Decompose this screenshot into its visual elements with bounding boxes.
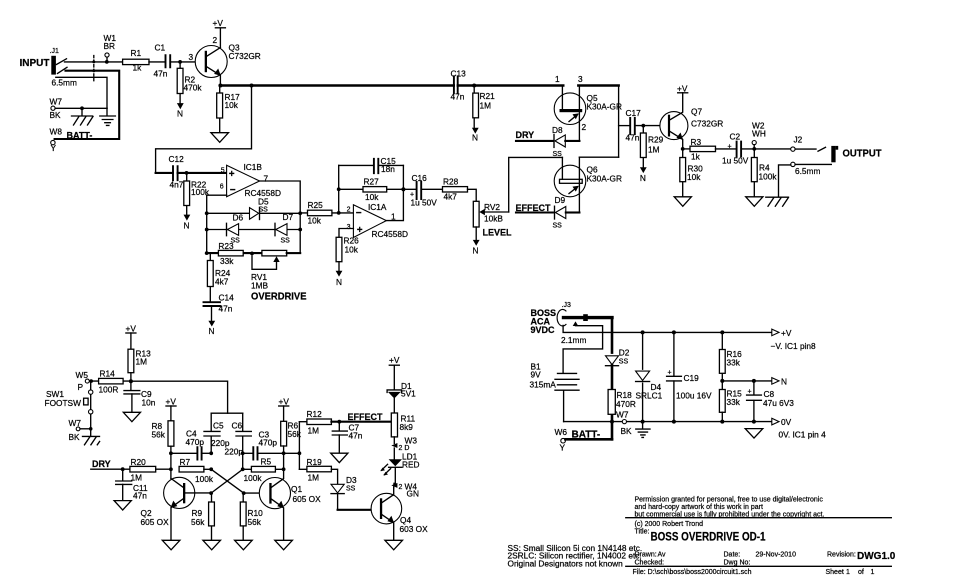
node R7 right [209, 467, 213, 471]
svg-text:W5: W5 [76, 370, 89, 380]
transistor Q4 603 OX [371, 488, 428, 541]
capacitor C1 47n [154, 43, 171, 79]
resistor R8 56k [152, 421, 174, 470]
svg-text:D6: D6 [233, 213, 244, 223]
node D6 left [205, 228, 209, 232]
transistor Q3 C732GR [189, 28, 261, 85]
svg-text:+V: +V [166, 397, 177, 407]
resistor R18 470R [608, 390, 636, 415]
node D4 bottom [641, 420, 645, 424]
transistor Q2 605 OX [141, 469, 195, 540]
svg-text:N: N [640, 173, 646, 183]
+V arrow [771, 328, 817, 351]
svg-text:9VDC: 9VDC [531, 325, 556, 335]
svg-text:R5: R5 [261, 457, 272, 467]
svg-text:GN: GN [407, 489, 419, 499]
svg-text:33k: 33k [220, 256, 234, 266]
svg-text:C2: C2 [730, 132, 741, 142]
svg-text:OUTPUT: OUTPUT [843, 148, 882, 159]
svg-text:Checked:: Checked: [635, 559, 665, 566]
ground below 0V rail [745, 429, 763, 439]
svg-text:220p: 220p [225, 447, 244, 457]
svg-text:1: 1 [846, 569, 850, 576]
svg-text:C19: C19 [684, 373, 700, 383]
svg-text:of: of [858, 569, 864, 576]
node output R4 [752, 147, 756, 151]
svg-text:C14: C14 [219, 293, 235, 303]
node R8 C4 [169, 451, 173, 455]
node Q1 base [242, 491, 246, 495]
resistor R13 1M [128, 349, 151, 382]
node Q3 emitter bus [218, 84, 222, 88]
jack J2 output [791, 135, 838, 177]
diode D2 SS [604, 348, 629, 366]
svg-text:1M: 1M [480, 101, 492, 111]
svg-text:10k: 10k [687, 172, 701, 182]
0V arrow [772, 417, 826, 440]
svg-text:100k: 100k [759, 172, 778, 182]
ground below Q1 [275, 540, 293, 550]
svg-text:1: 1 [555, 74, 560, 84]
svg-text:47n: 47n [451, 92, 465, 102]
wire Q1 base [244, 492, 270, 494]
wire sleeve run [56, 77, 107, 108]
svg-text:2.1mm: 2.1mm [561, 335, 586, 345]
svg-text:−V. IC1 pin8: −V. IC1 pin8 [771, 341, 817, 351]
capacitor C3 470p [243, 430, 284, 460]
svg-text:Title:: Title: [635, 529, 650, 536]
svg-text:Permission granted for persona: Permission granted for personal, free to… [635, 497, 824, 504]
node C13 R21 [472, 84, 476, 88]
node C8 bottom [752, 420, 756, 424]
svg-text:IC1A: IC1A [368, 202, 387, 212]
wire W7 to earth [55, 107, 107, 109]
N arrow below R22 [184, 215, 191, 231]
svg-text:DWG1.0: DWG1.0 [857, 551, 896, 562]
svg-text:BATT-: BATT- [67, 131, 93, 141]
svg-text:D8: D8 [552, 125, 563, 135]
wire D3 to Q4 base thick [338, 509, 380, 511]
op-amp IC1A [347, 202, 408, 239]
svg-text:R7: R7 [180, 457, 191, 467]
svg-text:W7: W7 [50, 97, 63, 107]
svg-text:BR: BR [104, 41, 116, 51]
svg-text:DRY: DRY [516, 130, 535, 140]
svg-text:SRLC1: SRLC1 [636, 391, 663, 401]
op-amp IC1B [220, 162, 281, 198]
svg-text:OVERDRIVE: OVERDRIVE [251, 291, 307, 302]
svg-text:1k: 1k [691, 152, 701, 162]
svg-text:W7: W7 [616, 410, 629, 420]
+V above D1 [389, 355, 400, 390]
svg-text:SS: SS [259, 206, 269, 213]
svg-text:100u 16V: 100u 16V [676, 391, 712, 401]
battery switch contact path [563, 321, 603, 372]
ground below R17 [211, 133, 229, 143]
svg-text:Revision:: Revision: [827, 552, 856, 559]
svg-text:18n: 18n [381, 164, 395, 174]
svg-text:N: N [472, 133, 478, 143]
resistor R10 56k [240, 493, 263, 540]
svg-text:C13: C13 [451, 69, 467, 79]
svg-text:SS: SS [553, 151, 563, 158]
svg-text:R23: R23 [218, 241, 234, 251]
N arrow below R21 [472, 128, 479, 143]
N arrow below R2 [177, 103, 184, 118]
diode D7 SS [275, 212, 293, 245]
svg-text:R21: R21 [480, 91, 496, 101]
ground below C7 [331, 453, 348, 462]
svg-text:605 OX: 605 OX [293, 494, 322, 504]
capacitor C6 220p [225, 413, 252, 469]
svg-text:29-Nov-2010: 29-Nov-2010 [756, 552, 797, 559]
svg-text:Date:: Date: [724, 552, 741, 559]
resistor R23 33k [207, 241, 262, 266]
DC jack center pin wire thick [564, 314, 613, 321]
svg-text:R3: R3 [691, 137, 702, 147]
wire net to R25 [300, 212, 353, 214]
+V above R13 [126, 324, 137, 350]
svg-text:+V: +V [389, 355, 400, 365]
resistor R6 56k [281, 421, 302, 454]
svg-text:315mA: 315mA [530, 380, 557, 390]
node Q2 collector [169, 467, 173, 471]
svg-text:5V1: 5V1 [401, 389, 416, 399]
wire R28 to RV2 [468, 189, 477, 201]
node C5 C4 [209, 451, 213, 455]
svg-text:+: + [748, 389, 752, 396]
chassis ground input [72, 108, 94, 125]
wire D6 D7 row [207, 229, 301, 231]
chassis ground footswitch [83, 427, 100, 445]
resistor R9 56k [191, 493, 214, 540]
svg-text:W8: W8 [50, 127, 63, 137]
wire output sleeve to chassis [779, 165, 791, 196]
svg-text:R12: R12 [307, 409, 323, 419]
resistor R16 33k [719, 332, 742, 389]
svg-text:47n: 47n [219, 304, 233, 314]
capacitor C2 1u 50V [722, 132, 791, 166]
ground below C11 [114, 501, 131, 510]
resistor R1 1k [123, 48, 149, 73]
JFET Q6 K30A-GR [554, 157, 622, 212]
svg-text:605 OX: 605 OX [141, 517, 170, 527]
title block bottom rule [626, 565, 892, 567]
resistor R22 100k [184, 173, 210, 215]
svg-text:INPUT: INPUT [20, 58, 50, 69]
svg-text:−: − [230, 185, 236, 196]
footswitch SW1 [45, 381, 93, 429]
ground below Q4 [385, 540, 403, 550]
capacitor C7 47n [332, 422, 362, 453]
node C17 R29 [641, 124, 645, 128]
svg-text:BOSS OVERDRIVE OD-1: BOSS OVERDRIVE OD-1 [651, 530, 766, 544]
transistor Q7 C732GR [660, 93, 723, 149]
JFET Q5 K30A-GR [554, 74, 622, 141]
svg-text:1MB: 1MB [251, 280, 269, 290]
capacitor C13 47n [451, 69, 467, 102]
svg-text:LEVEL: LEVEL [483, 228, 513, 238]
svg-text:R19: R19 [307, 457, 323, 467]
svg-text:47n: 47n [626, 133, 640, 143]
node divider mid [720, 379, 724, 383]
svg-text:47n: 47n [349, 431, 363, 441]
svg-text:Sheet: Sheet [826, 569, 844, 576]
svg-text:J2: J2 [794, 135, 803, 145]
diode D9 SS [553, 195, 580, 229]
ground below C9 [123, 412, 140, 421]
svg-text:C5: C5 [213, 421, 224, 431]
svg-text:EFFECT: EFFECT [348, 412, 384, 422]
svg-text:N: N [184, 221, 190, 231]
N arrow below R29 [640, 167, 647, 183]
svg-text:FOOTSW: FOOTSW [45, 398, 82, 408]
wire Q6 drain link [579, 156, 618, 158]
svg-text:N: N [177, 109, 183, 119]
resistor R5 100k [243, 457, 284, 484]
svg-text:10kB: 10kB [484, 214, 503, 224]
svg-text:W3: W3 [405, 436, 418, 446]
svg-text:4n7: 4n7 [170, 180, 184, 190]
svg-text:EFFECT: EFFECT [516, 203, 552, 213]
wire feedback right vertical [386, 165, 403, 220]
capacitor C11 47n [116, 469, 148, 501]
svg-text:R14: R14 [100, 369, 116, 379]
svg-text:+V: +V [126, 324, 137, 334]
N arrow below RV2 [473, 240, 480, 256]
svg-text:N: N [209, 326, 215, 336]
svg-text:RV2: RV2 [484, 202, 500, 212]
connector W4 [391, 482, 419, 499]
connector W8 battery [50, 127, 93, 154]
title block drawn row [635, 551, 896, 562]
capacitor C17 47n [619, 108, 668, 143]
svg-text:1: 1 [871, 569, 875, 576]
node IC1A inverting [337, 211, 341, 215]
svg-text:Drawn:: Drawn: [635, 552, 657, 559]
N arrow power [772, 376, 787, 386]
svg-text:R28: R28 [443, 176, 459, 186]
node R5 left [241, 467, 245, 471]
svg-text:R27: R27 [364, 177, 380, 187]
svg-text:File: D:\sch\boss\boss2000ci: File: D:\sch\boss\boss2000circuit1.sch [633, 569, 752, 576]
node Q1 collector C3 [282, 451, 286, 455]
svg-text:and hard-copy artwork of this: and hard-copy artwork of this work in pa… [635, 504, 763, 511]
node Q2 base [209, 491, 213, 495]
+V above Q3 [213, 18, 226, 28]
resistor R11 8k9 [391, 413, 415, 443]
earth ground input [100, 108, 116, 125]
svg-text:SS: SS [553, 223, 563, 230]
+V above R6 [279, 397, 290, 422]
svg-text:3: 3 [189, 52, 194, 62]
node bus to C12 branch [250, 84, 254, 88]
resistor R17 10k [217, 86, 240, 133]
node C19 bottom [672, 420, 676, 424]
ground below R9 [203, 540, 221, 550]
svg-text:+: + [229, 169, 235, 180]
svg-text:470R: 470R [616, 399, 636, 409]
svg-text:0V. IC1 pin 4: 0V. IC1 pin 4 [779, 430, 827, 440]
svg-text:10n: 10n [142, 398, 156, 408]
jack J1 [50, 48, 77, 88]
wire C12 to IC1B [178, 172, 227, 174]
svg-text:D9: D9 [555, 195, 566, 205]
wire D5 row [207, 212, 301, 214]
svg-text:10k: 10k [308, 216, 322, 226]
label DRY lower [91, 459, 130, 469]
svg-text:RC4558D: RC4558D [372, 229, 408, 239]
resistor R25 10k [308, 200, 332, 226]
svg-text:Y: Y [51, 143, 57, 153]
svg-text:+V: +V [781, 328, 792, 338]
node D5 right [298, 211, 302, 215]
svg-text:4k7: 4k7 [215, 276, 229, 286]
title block file row [633, 569, 875, 576]
connector W1 [104, 33, 117, 64]
node D5 left [205, 211, 209, 215]
N arrow below R26 [336, 271, 343, 287]
title block top rule [626, 517, 892, 519]
resistor R2 470k [177, 62, 202, 103]
svg-text:0V: 0V [781, 417, 792, 427]
svg-text:+: + [668, 370, 672, 377]
svg-text:BK: BK [69, 432, 81, 442]
diode D5 SS [250, 197, 269, 220]
svg-text:1M: 1M [308, 473, 320, 483]
+V above Q7 [677, 84, 688, 94]
title block checked row [635, 559, 751, 566]
resistor R12 1M [299, 409, 331, 436]
svg-text:Original Designators not known: Original Designators not known [508, 558, 624, 568]
node C19 top [672, 330, 676, 334]
wire R1 to C1 [149, 61, 165, 63]
wire N mid rail [722, 380, 772, 382]
capacitor C15 18n [374, 156, 396, 174]
svg-text:D5: D5 [258, 197, 269, 207]
svg-text:Av: Av [658, 552, 667, 559]
node C6 C3 [241, 451, 245, 455]
resistor R21 1M [473, 86, 495, 128]
resistor R30 10k [680, 149, 703, 197]
wire bus down to C12 [156, 86, 252, 173]
svg-text:470k: 470k [184, 83, 203, 93]
svg-text:N: N [336, 277, 342, 287]
svg-text:9V: 9V [531, 370, 542, 380]
svg-text:Dwg No:: Dwg No: [724, 559, 751, 566]
main bus wire [220, 84, 618, 87]
svg-text:Q7: Q7 [691, 107, 702, 117]
svg-text:C732GR: C732GR [229, 51, 261, 61]
svg-text:SS: SS [346, 486, 356, 493]
wire collector to R12 R19 [284, 422, 300, 470]
resistor R7 100k [179, 457, 214, 484]
node R13 R14 [129, 379, 133, 383]
resistor R29 1M [640, 126, 663, 168]
svg-text:6: 6 [220, 184, 224, 191]
N arrow below C14 [208, 321, 215, 336]
svg-text:33k: 33k [727, 397, 741, 407]
capacitor C14 47n [204, 293, 235, 321]
svg-text:2: 2 [347, 207, 351, 214]
wire IC1A plus input [339, 229, 353, 238]
node D4 top [641, 330, 645, 334]
wire trigger to goalpost [131, 381, 228, 413]
svg-text:1k: 1k [133, 63, 143, 73]
wire C12 input thick [156, 172, 173, 174]
diode D8 SS [552, 125, 579, 158]
svg-text:1M: 1M [136, 357, 148, 367]
ground below R4 [746, 197, 763, 207]
node D7 right [298, 228, 302, 232]
+V rail [563, 325, 772, 332]
svg-text:.J3: .J3 [562, 302, 571, 309]
svg-text:W7: W7 [69, 418, 82, 428]
ground below Q2 [162, 540, 180, 550]
svg-text:RED: RED [402, 460, 420, 470]
svg-text:R1: R1 [131, 48, 142, 58]
svg-text:10k: 10k [365, 192, 379, 202]
svg-text:DRY: DRY [92, 459, 111, 469]
svg-text:6.5mm: 6.5mm [795, 166, 820, 176]
connector W5 [76, 370, 93, 392]
svg-text:D2: D2 [619, 348, 630, 358]
wire feedback top row [339, 164, 404, 166]
0V rail [564, 421, 772, 423]
capacitor C9 10n [124, 381, 156, 412]
svg-text:8k9: 8k9 [400, 422, 414, 432]
svg-text:1M: 1M [648, 145, 660, 155]
svg-text:R20: R20 [131, 457, 147, 467]
node rail R18 [610, 420, 614, 424]
svg-text:+V: +V [677, 84, 688, 94]
svg-text:R25: R25 [308, 200, 324, 210]
jack tip contact [57, 59, 67, 65]
svg-text:N: N [781, 376, 787, 386]
capacitor C16 1u 50V [410, 173, 437, 207]
ground below R30 [674, 197, 691, 207]
diode D4 SRLC1 [635, 332, 663, 421]
node R12 vertical [298, 451, 302, 455]
wire RV2 wiper to Q6 [509, 157, 563, 212]
svg-text:Y: Y [560, 443, 566, 453]
svg-text:4k7: 4k7 [444, 192, 458, 202]
wire IC1B output [260, 181, 301, 253]
wire DRY stub [516, 140, 553, 142]
svg-text:IC1B: IC1B [244, 162, 263, 172]
svg-text:1u 50V: 1u 50V [411, 197, 438, 207]
wire tip to R1 [65, 61, 123, 63]
svg-text:33k: 33k [727, 358, 741, 368]
svg-text:1M: 1M [308, 426, 320, 436]
earth ground power rail [636, 422, 650, 438]
svg-text:BK: BK [621, 426, 633, 436]
wire R27 row [339, 188, 416, 190]
capacitor C8 47u 6V3 [747, 379, 795, 422]
svg-text:+V: +V [213, 18, 224, 28]
node Q1 collector R5 [282, 467, 286, 471]
svg-text:N: N [473, 246, 479, 256]
node R22 [185, 171, 189, 175]
svg-text:C17: C17 [626, 108, 642, 118]
svg-text:100k: 100k [195, 474, 214, 484]
svg-text:C16: C16 [412, 173, 428, 183]
svg-text:2: 2 [582, 122, 587, 132]
resistor R26 10k [336, 236, 359, 271]
svg-text:+V: +V [279, 397, 290, 407]
wire C1 to Q3 base [170, 61, 205, 63]
resistor R19 1M [299, 457, 337, 484]
